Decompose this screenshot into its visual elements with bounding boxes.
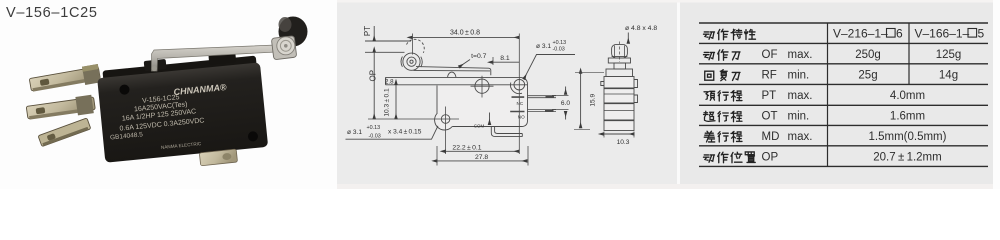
svg-text:ø 3.1: ø 3.1: [347, 129, 362, 136]
6.0 dimension arrows: [565, 87, 567, 95]
svg-text:20.7 ± 1.2mm: 20.7 ± 1.2mm: [873, 151, 941, 163]
10.3 dimension line: [395, 85, 397, 119]
svg-text:27.8: 27.8: [475, 154, 488, 161]
drawing text labels: [347, 25, 657, 161]
svg-text:min.: min.: [788, 69, 810, 81]
mounting hole bottom-right: [248, 131, 259, 142]
plunger bumps on top: [144, 59, 167, 71]
operating position reference line: [365, 51, 405, 53]
row 回复力 RF min.: [705, 71, 714, 80]
background drawing area (light gray): [337, 0, 677, 189]
front view body outline: [386, 77, 528, 126]
22.2 dimension line: [446, 150, 520, 152]
side view lever plates: [608, 58, 630, 63]
t=0.7 leader: [459, 60, 470, 68]
15.9 dimension line: [580, 74, 582, 129]
right hole boss arc: [510, 83, 522, 94]
svg-text:-0.03: -0.03: [553, 47, 565, 53]
10.3 side dimension line: [604, 133, 635, 135]
right mounting hole: [514, 79, 525, 90]
svg-text:RF: RF: [762, 69, 777, 81]
svg-text:1.5mm(0.5mm): 1.5mm(0.5mm): [869, 131, 947, 143]
svg-text:x 3.4 ± 0.15: x 3.4 ± 0.15: [388, 129, 422, 136]
side view neck: [614, 63, 626, 69]
svg-text:6: 6: [896, 26, 903, 40]
svg-text:6.0: 6.0: [561, 100, 570, 107]
left hole centre lines: [368, 107, 459, 155]
roller axle rivet: [277, 37, 295, 55]
svg-text:250g: 250g: [855, 49, 881, 61]
svg-text:14g: 14g: [939, 69, 958, 81]
svg-text:5: 5: [978, 26, 985, 40]
background table area (light gray): [680, 0, 993, 189]
PT dimension line: [373, 26, 375, 41]
svg-text:+0.13: +0.13: [367, 125, 381, 131]
svg-text:max.: max.: [788, 90, 813, 102]
right white edge: [993, 0, 1000, 189]
side view roller fork plates: [615, 46, 625, 59]
right hole vertical centre line: [518, 34, 520, 155]
svg-text:8.1: 8.1: [500, 55, 510, 62]
svg-text:ø 3.1: ø 3.1: [536, 43, 551, 50]
row 动作力 OF max.: [704, 52, 715, 59]
front view body light interior: [435, 85, 528, 130]
10.3 extension ticks: [604, 132, 634, 138]
COM leader arrow: [489, 113, 491, 125]
white divider between drawing and table: [677, 0, 680, 189]
6.0 extension ticks: [552, 95, 569, 109]
terminal T3 (lower left, short): [38, 118, 91, 147]
mounting hole top-left: [119, 84, 130, 95]
table horizontal lines: [699, 23, 988, 166]
table vertical divider 2: [908, 23, 910, 84]
svg-text:max.: max.: [788, 131, 813, 143]
main body front face: [97, 62, 268, 162]
34.0 dimension line: [413, 36, 520, 38]
lever curl ears around roller: [401, 57, 422, 68]
svg-text:OP: OP: [762, 151, 779, 163]
side view left tab: [601, 82, 604, 86]
side view roller: [612, 44, 628, 58]
svg-text:min.: min.: [788, 111, 810, 123]
table vertical divider 1: [827, 23, 829, 166]
left mounting hole: [441, 115, 450, 124]
NO terminal: [528, 110, 557, 112]
svg-text:10.3 ± 0.1: 10.3 ± 0.1: [384, 88, 391, 117]
2.8 left connector: [385, 77, 387, 84]
svg-text:MD: MD: [762, 131, 780, 143]
side view body seams: [604, 94, 634, 111]
lever pivot bump on top edge: [448, 72, 457, 77]
svg-text:max.: max.: [788, 49, 813, 61]
svg-text:COM: COM: [474, 123, 485, 128]
lever (drawing) top and bottom lines: [414, 67, 491, 76]
svg-text:OP: OP: [369, 70, 378, 82]
svg-text:-0.03: -0.03: [369, 134, 381, 140]
svg-text:V–156–1C25: V–156–1C25: [6, 5, 98, 21]
terminal T2 (middle left spade): [26, 95, 96, 123]
bottom-left mounting boss arc: [435, 114, 453, 131]
15.9 extension ticks: [574, 72, 604, 129]
svg-text:OT: OT: [762, 111, 778, 123]
side view main body: [604, 77, 634, 131]
svg-text:125g: 125g: [936, 49, 962, 61]
8.1 dimension line: [493, 61, 519, 63]
side view shoulder: [606, 69, 633, 77]
8.1 extension line: [492, 57, 494, 65]
NC NO tick marks: [510, 97, 524, 111]
OP dimension line: [373, 52, 375, 119]
27.8 extension lines: [437, 146, 528, 166]
row 预行程 PT max.: [704, 91, 715, 100]
svg-text:ø 4.8 x 4.8: ø 4.8 x 4.8: [625, 25, 657, 32]
top light strip over gray zones: [337, 0, 993, 3]
svg-text:22.2 ± 0.1: 22.2 ± 0.1: [452, 144, 481, 151]
body top face sliver: [102, 56, 256, 83]
terminal T4 (bottom spade): [199, 149, 237, 166]
34.0 left extension line: [412, 34, 414, 55]
27.8 dimension line: [437, 160, 527, 162]
NC terminal: [528, 96, 557, 98]
svg-text:4.0mm: 4.0mm: [890, 90, 925, 102]
svg-text:V–166–1–: V–166–1–: [915, 26, 970, 40]
svg-text:25g: 25g: [858, 69, 877, 81]
header 动作特性: [704, 32, 715, 39]
background photo area (white): [0, 0, 337, 189]
lever arm (metal strip): [152, 45, 277, 71]
ø3.1 bottom-left underline and leader: [346, 126, 439, 139]
switch body (rotated black block): [96, 50, 268, 163]
svg-text:NO: NO: [518, 114, 525, 119]
ø4.8 leader: [627, 33, 629, 44]
terminal T1 (upper left spade): [29, 64, 101, 94]
side view right tabs: [634, 80, 638, 103]
row 超行程 OT min.: [704, 111, 716, 121]
svg-text:2.8: 2.8: [385, 78, 394, 85]
svg-text:V–216–1–: V–216–1–: [833, 26, 888, 40]
row 动作位置 OP: [704, 155, 715, 162]
body left edge: [436, 86, 438, 115]
free position reference line: [365, 40, 411, 42]
svg-text:15.9: 15.9: [590, 93, 597, 106]
svg-text:OF: OF: [762, 49, 778, 61]
middle plunger circle with centerlines: [475, 79, 489, 93]
side view roller mid line: [612, 56, 628, 58]
svg-text:10.3: 10.3: [617, 139, 630, 146]
lever bend hook: [152, 66, 157, 71]
roller bracket plate: [271, 36, 296, 60]
row 差行程 MD max.: [704, 131, 715, 142]
svg-text:34.0 ± 0.8: 34.0 ± 0.8: [450, 30, 480, 37]
svg-text:t=0.7: t=0.7: [471, 53, 487, 60]
roller (drawing) concentric circles: [403, 53, 420, 70]
svg-text:PT: PT: [363, 26, 372, 36]
svg-text:NC: NC: [517, 101, 524, 106]
bottom light strip over gray zones: [337, 184, 993, 189]
svg-text:PT: PT: [762, 90, 777, 102]
COM terminal below body: [491, 127, 522, 137]
svg-text:1.6mm: 1.6mm: [890, 111, 925, 123]
ø3.1 top leader with underline: [524, 55, 575, 80]
roller (black wheel cylinder): [279, 17, 308, 47]
side view roller center dashed line: [619, 42, 621, 63]
hole centre seam line (2.8 ref): [386, 84, 528, 86]
svg-text:+0.13: +0.13: [553, 40, 567, 46]
phantom roller at free position (dashed): [407, 39, 425, 53]
